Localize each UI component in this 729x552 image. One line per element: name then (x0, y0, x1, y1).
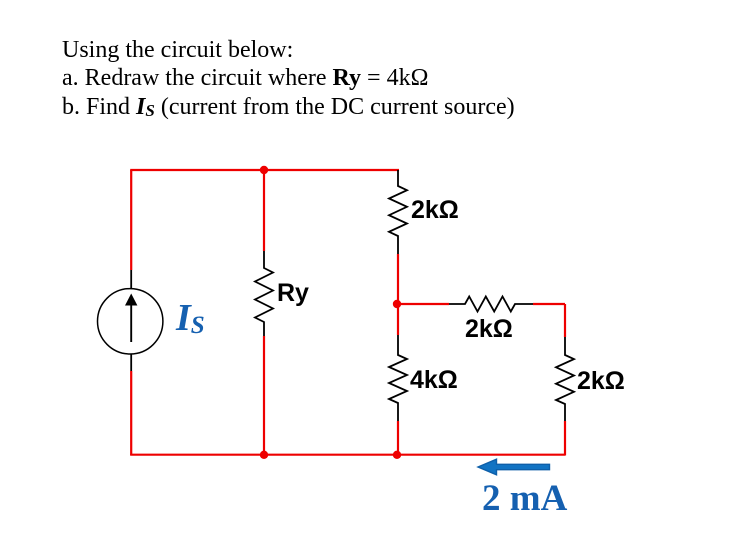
svg-text:IS: IS (175, 297, 205, 339)
svg-text:2 mA: 2 mA (482, 478, 568, 519)
svg-text:2kΩ: 2kΩ (577, 367, 625, 395)
svg-text:Ry: Ry (277, 279, 309, 307)
svg-text:4kΩ: 4kΩ (410, 366, 458, 394)
svg-text:2kΩ: 2kΩ (465, 315, 513, 343)
svg-text:2kΩ: 2kΩ (411, 196, 459, 224)
